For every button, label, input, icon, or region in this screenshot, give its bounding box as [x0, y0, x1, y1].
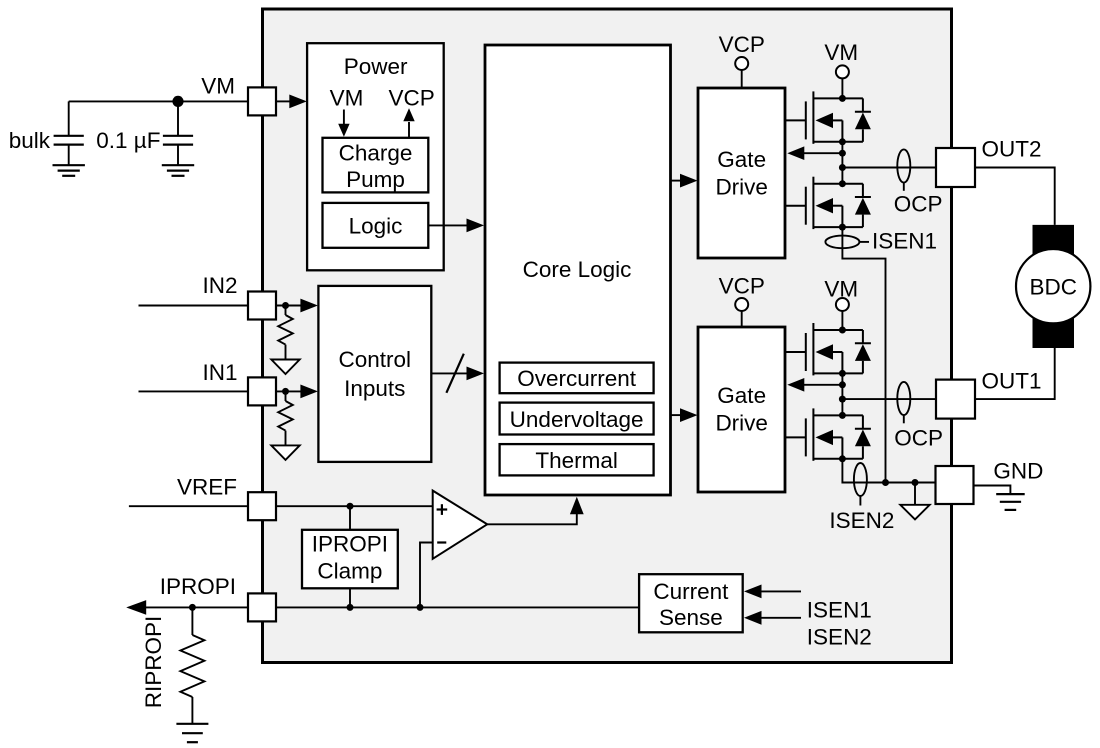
- element ISEN1 sense ellipse: [825, 236, 859, 249]
- svg-text:VM: VM: [330, 86, 364, 111]
- wire IN2 to Control Inputs: [276, 305, 302, 307]
- wire Core Logic to Gate Drive 1: [671, 180, 681, 182]
- node ground net triangle join: [912, 479, 919, 486]
- node ground net ISEN1 join: [882, 479, 889, 486]
- block Logic: [323, 203, 429, 248]
- ground (bulk cap): [53, 164, 85, 166]
- svg-text:Gate: Gate: [717, 147, 766, 172]
- terminal VCP2: [735, 298, 748, 311]
- svg-text:VCP: VCP: [719, 274, 765, 299]
- svg-text:IPROPI: IPROPI: [312, 532, 388, 557]
- wire bridge 1 center: [841, 142, 843, 184]
- wire VM pin to Power block: [276, 100, 290, 102]
- svg-text:VCP: VCP: [388, 86, 434, 111]
- svg-text:RIPROPI: RIPROPI: [141, 616, 166, 709]
- node VREF junction: [347, 503, 354, 510]
- svg-text:ISEN1: ISEN1: [872, 229, 937, 254]
- terminal VCP1: [735, 57, 748, 70]
- svg-text:OUT1: OUT1: [982, 369, 1042, 394]
- wire gate drive 1 sense arrow: [804, 152, 842, 154]
- wire ISEN2 into Current Sense: [760, 617, 801, 619]
- svg-text:VM: VM: [201, 73, 235, 98]
- resistor IN2 pulldown: [285, 308, 287, 315]
- wire OUT1 internal: [842, 398, 936, 400]
- element OCP1 sense ellipse: [897, 149, 910, 182]
- node VM junction: [172, 96, 183, 107]
- node comparator feedback junction: [417, 604, 424, 611]
- svg-text:Gate: Gate: [717, 383, 766, 408]
- svg-text:Drive: Drive: [715, 175, 768, 200]
- node bridge1 source ls: [839, 224, 846, 231]
- ground (GND pin earth): [996, 493, 1024, 495]
- wire IN1 input: [139, 390, 249, 392]
- op-amp minus input mark: [437, 541, 446, 543]
- block Undervoltage: [500, 403, 654, 435]
- node bridge2 source ls: [839, 455, 846, 462]
- node bridge2 source hs: [839, 370, 846, 377]
- pin OUT2: [936, 148, 975, 187]
- wire motor to OUT1: [976, 348, 1055, 399]
- pin IPROPI: [248, 593, 276, 621]
- wire IPROPI rail: [276, 606, 639, 608]
- wire VM into Charge Pump arrow: [343, 110, 345, 125]
- node bridge2 drain ls: [839, 412, 846, 419]
- pin IN2: [248, 292, 276, 320]
- svg-text:VREF: VREF: [177, 474, 237, 499]
- chip body (device boundary): [263, 9, 952, 663]
- pin GND: [936, 466, 974, 504]
- node IN1 pulldown junction: [282, 388, 289, 395]
- node IPROPI junction: [189, 604, 196, 611]
- wire IN2 input: [139, 305, 249, 307]
- svg-text:ISEN2: ISEN2: [829, 508, 894, 533]
- svg-text:OCP: OCP: [894, 426, 943, 451]
- svg-text:OCP: OCP: [894, 192, 943, 217]
- node IPROPI clamp junction: [347, 604, 354, 611]
- wire Core Logic to Gate Drive 2: [671, 414, 681, 416]
- node bridge2 gate sense: [839, 381, 846, 388]
- svg-text:Charge: Charge: [339, 141, 413, 166]
- pin IN1: [248, 377, 276, 405]
- resistor RIPROPI: [191, 610, 193, 635]
- block Current Sense: [639, 574, 743, 632]
- block Gate Drive 2: [698, 327, 785, 492]
- node bridge1 drain ls: [839, 180, 846, 187]
- svg-text:Sense: Sense: [659, 605, 723, 630]
- wire bridge2 source to ground net: [842, 459, 935, 483]
- bus slash mark: [446, 354, 463, 393]
- wire IPROPI output with arrow: [144, 606, 248, 608]
- transistor Q4 low-side bridge 2: [786, 408, 871, 460]
- svg-text:ISEN1: ISEN1: [807, 597, 872, 622]
- svg-text:Undervoltage: Undervoltage: [510, 407, 644, 432]
- wire VCP out of Charge Pump arrow: [408, 122, 410, 138]
- wire IPROPI clamp top stub: [349, 506, 351, 530]
- capacitor bulk: [68, 101, 70, 135]
- wire VM input net: [69, 100, 248, 102]
- block Control Inputs: [318, 286, 431, 462]
- block IPROPI Clamp: [302, 530, 398, 589]
- svg-text:0.1 µF: 0.1 µF: [96, 128, 160, 153]
- wire Logic to Core Logic: [428, 224, 467, 226]
- svg-text:Overcurrent: Overcurrent: [517, 366, 637, 391]
- logic ground (IN2 pulldown): [271, 360, 299, 375]
- wire OUT2 internal: [842, 167, 936, 169]
- wire gate drive 2 sense arrow: [804, 384, 842, 386]
- wire comparator output to Core Logic: [487, 512, 577, 524]
- logic ground (internal GND): [914, 483, 916, 505]
- op-amp current sense comparator U1: [433, 491, 488, 559]
- svg-text:VM: VM: [824, 40, 858, 65]
- block Power: [307, 43, 444, 270]
- wire VREF input: [129, 505, 248, 507]
- pin VM: [248, 87, 276, 115]
- svg-text:bulk: bulk: [9, 128, 51, 153]
- node bridge1 out: [839, 164, 846, 171]
- svg-text:OUT2: OUT2: [982, 137, 1042, 162]
- block Charge Pump: [323, 138, 429, 193]
- node bridge1 drain top: [839, 95, 846, 102]
- wire GND external: [974, 486, 1011, 495]
- wire comparator inverting input: [420, 543, 433, 608]
- svg-text:GND: GND: [993, 459, 1043, 484]
- svg-text:Inputs: Inputs: [344, 376, 405, 401]
- node IN2 pulldown junction: [282, 302, 289, 309]
- element ISEN2 sense ellipse: [854, 463, 867, 496]
- transistor Q1 high-side bridge 1: [786, 91, 871, 143]
- svg-text:Drive: Drive: [715, 411, 768, 436]
- svg-text:IN2: IN2: [202, 273, 237, 298]
- wire ISEN1 into Current Sense: [760, 590, 801, 592]
- wire VREF to comparator: [276, 505, 433, 507]
- logic ground (IN1 pulldown): [271, 445, 299, 460]
- node bridge1 source hs: [839, 138, 846, 145]
- svg-text:Clamp: Clamp: [317, 558, 382, 583]
- svg-text:VCP: VCP: [719, 32, 765, 57]
- terminal VM bridge 1: [836, 65, 849, 78]
- ground (0.1uF cap): [162, 164, 194, 166]
- svg-text:Power: Power: [344, 54, 408, 79]
- block Overcurrent: [500, 363, 654, 394]
- svg-text:VM: VM: [824, 276, 858, 301]
- svg-text:BDC: BDC: [1029, 274, 1077, 299]
- wire bridge 2 center: [841, 373, 843, 415]
- resistor IN1 pulldown: [285, 394, 287, 401]
- wire ISEN1 sense to ground net: [842, 227, 885, 482]
- pin OUT1: [936, 380, 975, 419]
- block Gate Drive 1: [698, 88, 785, 258]
- block Core Logic: [485, 45, 671, 495]
- transistor Q2 low-side bridge 1: [786, 177, 871, 229]
- svg-text:Core Logic: Core Logic: [523, 257, 632, 282]
- svg-text:ISEN2: ISEN2: [807, 625, 872, 650]
- motor BDC terminal bottom: [1033, 318, 1075, 348]
- svg-text:Pump: Pump: [346, 167, 405, 192]
- capacitor C 0.1uF: [177, 101, 179, 135]
- pin VREF: [248, 492, 276, 520]
- terminal VM bridge 2: [836, 298, 849, 311]
- wire Control Inputs bus to Core Logic: [431, 372, 467, 374]
- motor BDC body: [1016, 249, 1090, 323]
- op-amp plus input mark: [437, 508, 448, 510]
- motor BDC terminal top: [1033, 225, 1075, 254]
- wire IN1 to Control Inputs: [276, 390, 302, 392]
- transistor Q3 high-side bridge 2: [786, 323, 871, 375]
- wire IPROPI clamp bottom stub: [349, 588, 351, 607]
- node bridge1 gate sense: [839, 150, 846, 157]
- wire OUT2 to motor: [976, 168, 1055, 225]
- node bridge2 drain top: [839, 327, 846, 334]
- svg-text:Logic: Logic: [349, 214, 403, 239]
- svg-text:Control: Control: [339, 347, 412, 372]
- svg-text:IN1: IN1: [202, 360, 237, 385]
- svg-text:Current: Current: [653, 579, 729, 604]
- element OCP2 sense ellipse: [897, 382, 910, 415]
- node bridge2 out: [839, 396, 846, 403]
- svg-text:Thermal: Thermal: [535, 448, 618, 473]
- ground (RIPROPI): [176, 723, 208, 725]
- block Thermal: [500, 444, 654, 475]
- svg-text:IPROPI: IPROPI: [160, 574, 236, 599]
